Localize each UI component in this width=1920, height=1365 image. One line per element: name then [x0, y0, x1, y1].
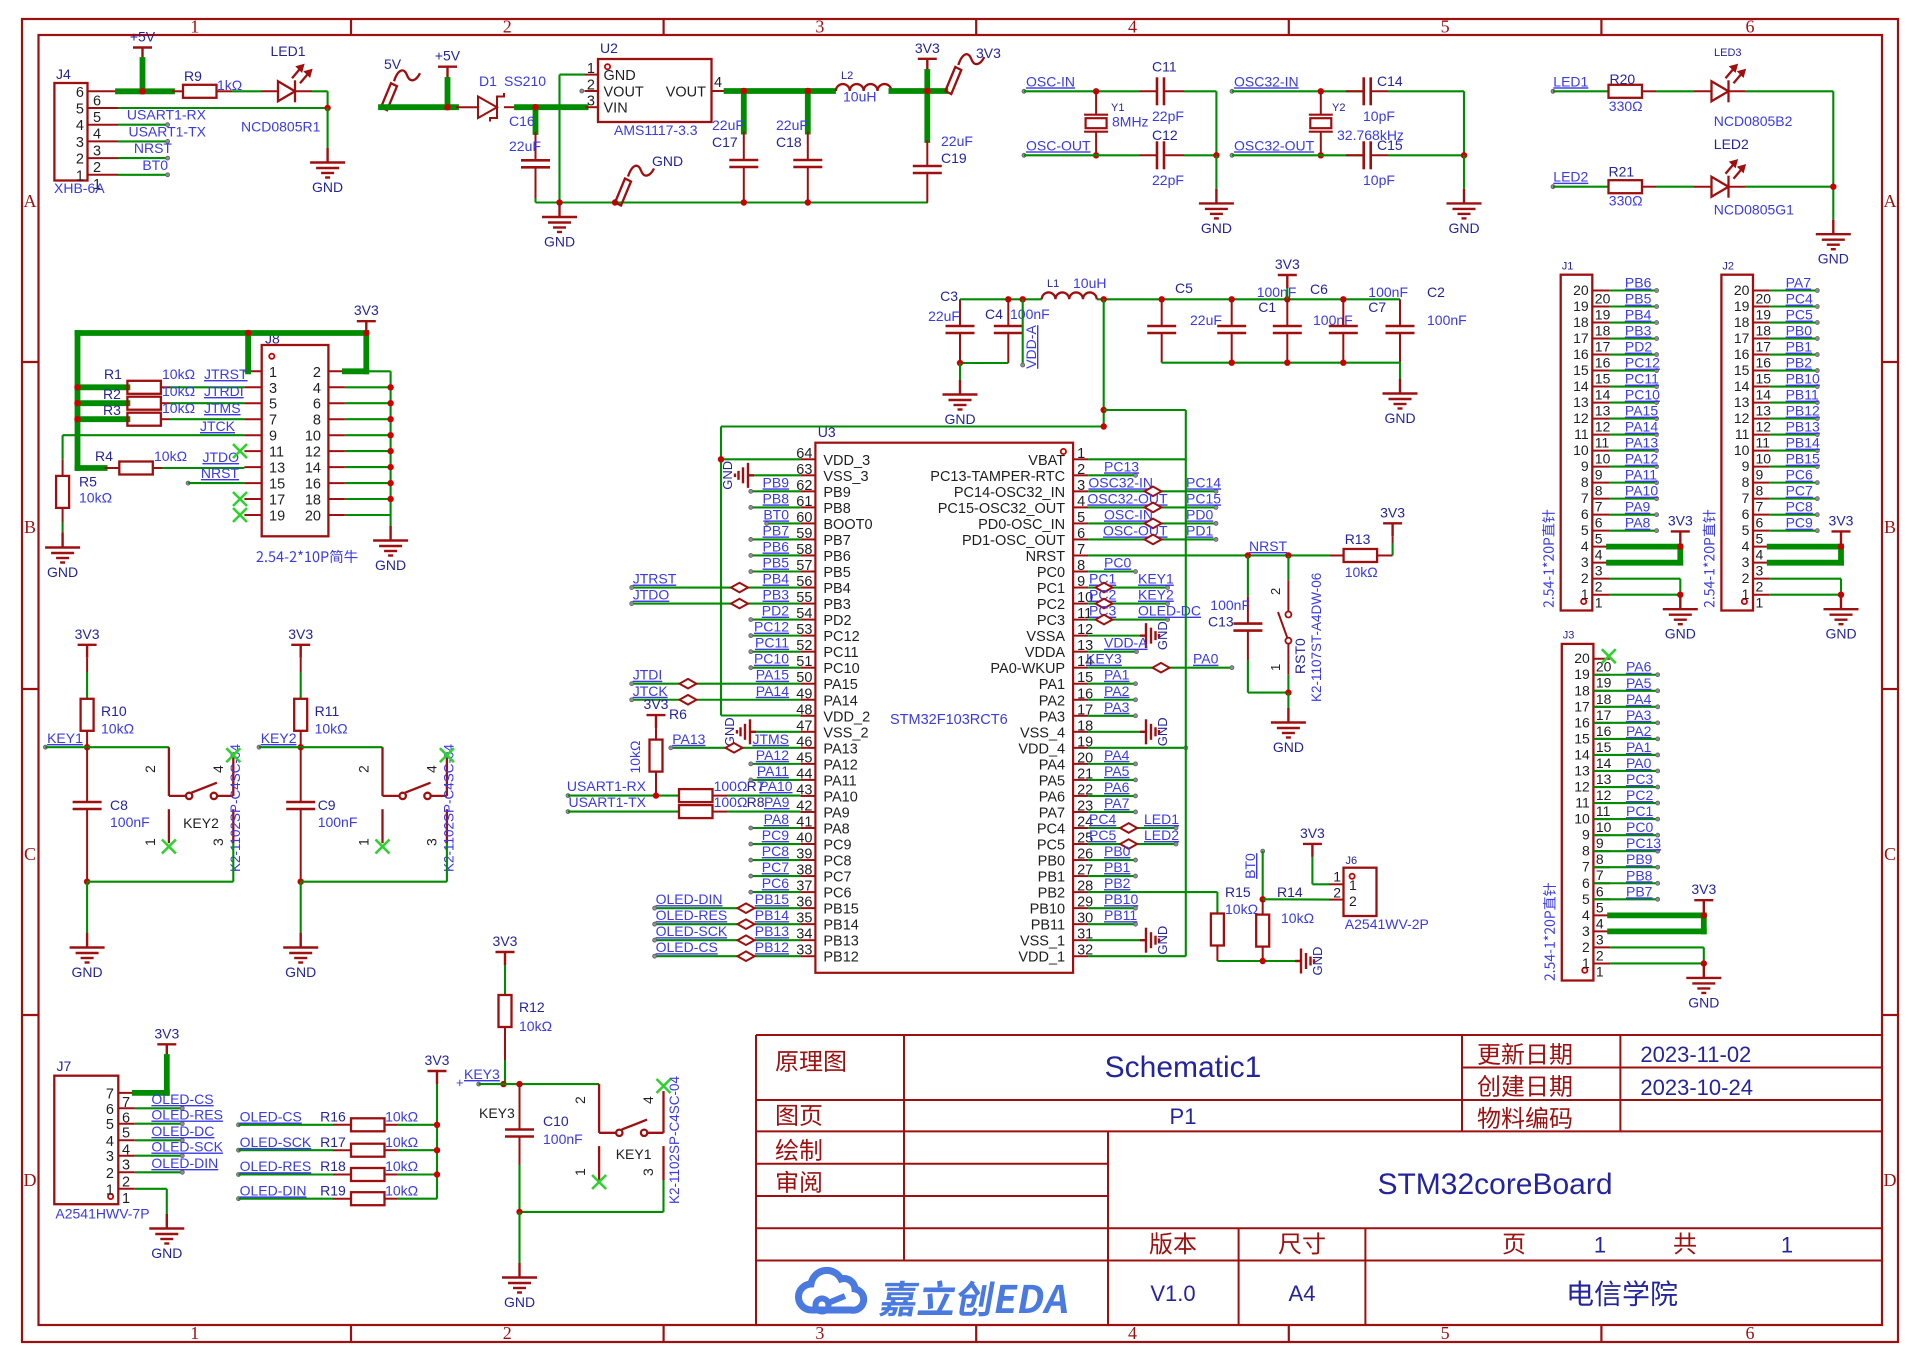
- svg-text:PC0: PC0: [1626, 819, 1653, 835]
- svg-text:L1: L1: [1047, 278, 1059, 290]
- net OLED-RES (pullup): [237, 1158, 334, 1176]
- svg-text:2: 2: [1596, 947, 1604, 963]
- wire VDD rail above U3: [721, 299, 1104, 715]
- svg-text:22uF: 22uF: [1190, 312, 1222, 328]
- junction R3: [74, 416, 80, 422]
- wire to R9: [172, 90, 183, 92]
- wire D1 to VIN: [504, 106, 517, 108]
- svg-text:KEY2: KEY2: [1138, 587, 1174, 603]
- svg-text:GND: GND: [652, 153, 683, 169]
- svg-text:PB10: PB10: [1030, 902, 1065, 918]
- power flag 3V3 (J1): [1668, 512, 1693, 544]
- svg-text:3V3: 3V3: [425, 1052, 450, 1068]
- net OSC-IN: [1022, 73, 1139, 93]
- ground GND (J3): [1686, 963, 1721, 1010]
- svg-text:PC0: PC0: [1104, 555, 1131, 571]
- net PC6 (U3 left): [749, 875, 801, 894]
- net PC1 (J3): [1593, 803, 1659, 821]
- net PA2 (U3 right): [1088, 683, 1137, 702]
- junction osc32 gnd: [1461, 152, 1467, 158]
- svg-text:JTRST: JTRST: [633, 571, 677, 587]
- svg-text:VSSA: VSSA: [1026, 629, 1065, 645]
- svg-text:+5V: +5V: [435, 48, 461, 64]
- svg-text:4: 4: [210, 765, 226, 773]
- svg-text:1: 1: [1594, 1233, 1606, 1258]
- svg-text:PB11: PB11: [1031, 918, 1065, 934]
- svg-text:VDD_4: VDD_4: [1018, 741, 1065, 757]
- net alias diamond (JTDI): [680, 679, 697, 689]
- no-connect pin1 (): [376, 840, 390, 854]
- svg-text:K2-1102SP-C4SC-04: K2-1102SP-C4SC-04: [667, 1075, 682, 1204]
- net BT0 (U3): [763, 506, 800, 525]
- no-connect KEY1 pin4: [657, 1079, 671, 1093]
- net OLED-SCK/PB13 (U3 left): [653, 923, 801, 942]
- svg-text:7: 7: [1742, 490, 1750, 506]
- svg-text:PA3: PA3: [1104, 699, 1130, 715]
- resistor R8 100: [679, 794, 800, 818]
- svg-text:PA13: PA13: [1625, 435, 1658, 451]
- wire JTCK to R5: [63, 435, 245, 476]
- svg-text:17: 17: [1596, 707, 1612, 723]
- net PA5 (J3): [1593, 675, 1659, 693]
- net KEY3 label: [456, 1066, 504, 1090]
- svg-text:PB3: PB3: [823, 597, 850, 613]
- svg-text:9: 9: [1596, 835, 1604, 851]
- junction bus/pin1: [245, 330, 251, 336]
- net PC4 (J2): [1770, 291, 1820, 309]
- net PC0 (U3 right): [1088, 555, 1137, 574]
- net OLED-SCK (J7): [135, 1139, 224, 1158]
- svg-text:12: 12: [305, 445, 321, 461]
- no-connect pin4 (): [440, 748, 454, 762]
- net PC3/OLED-DC (U3 right): [1088, 603, 1201, 622]
- svg-text:2: 2: [1349, 893, 1357, 909]
- svg-text:6: 6: [93, 93, 101, 109]
- svg-text:9: 9: [1077, 574, 1085, 590]
- svg-text:Y1: Y1: [1111, 102, 1124, 114]
- svg-text:C6: C6: [1310, 281, 1328, 297]
- wire pin48 VDD_2: [721, 714, 800, 716]
- svg-text:GND: GND: [944, 411, 975, 427]
- net alias diamond (OSC-OUT): [1145, 535, 1162, 545]
- svg-text:15: 15: [269, 477, 285, 493]
- net PB9 (J3): [1593, 851, 1659, 869]
- net alias diamond (OLED-DC): [1096, 615, 1113, 625]
- svg-text:PB0: PB0: [1104, 843, 1131, 859]
- net alias diamond (LED2): [1120, 839, 1137, 849]
- svg-text:2: 2: [503, 17, 512, 37]
- junctions J8 right rail: [387, 384, 393, 502]
- svg-text:OLED-DIN: OLED-DIN: [656, 891, 723, 907]
- svg-text:11: 11: [1756, 435, 1771, 451]
- svg-text:20: 20: [1573, 282, 1589, 298]
- net PA1 (U3 right): [1088, 667, 1137, 686]
- svg-text:3V3: 3V3: [1380, 504, 1405, 520]
- svg-text:10: 10: [305, 429, 321, 445]
- svg-text:GND: GND: [1448, 220, 1479, 236]
- svg-text:5: 5: [1742, 522, 1750, 538]
- svg-text:5: 5: [1441, 1323, 1450, 1343]
- svg-text:7: 7: [1595, 499, 1603, 515]
- junction C bottom (KEY2): [298, 879, 304, 885]
- connector J3 2.54-1*20P: [1543, 630, 1612, 981]
- wire to GND (RST0): [1287, 693, 1289, 708]
- wire to GND: [327, 108, 329, 148]
- net PA4 (J3): [1593, 691, 1659, 709]
- net PB1 (U3 right): [1088, 859, 1137, 878]
- resistor R16 10k: [320, 1109, 437, 1132]
- svg-text:R16: R16: [320, 1109, 346, 1125]
- svg-text:USART1-RX: USART1-RX: [567, 778, 647, 794]
- svg-text:USART1-TX: USART1-TX: [568, 794, 646, 810]
- LED LED3 NCD0805B2: [1694, 47, 1833, 129]
- net PB10 (U3 right): [1088, 891, 1138, 910]
- svg-text:15: 15: [1756, 371, 1772, 387]
- net PB6 (U3 left): [749, 538, 801, 557]
- resistor R17 10k: [320, 1134, 437, 1157]
- junction C6 bottom: [1284, 360, 1290, 366]
- net PB1 (J2): [1770, 339, 1820, 357]
- resistor R14 10k: [1256, 884, 1314, 961]
- svg-text:VSS_3: VSS_3: [823, 469, 868, 485]
- svg-text:PC8: PC8: [1786, 499, 1813, 515]
- svg-text:6: 6: [1746, 17, 1755, 37]
- svg-text:PA9: PA9: [764, 794, 790, 810]
- svg-text:22uF: 22uF: [712, 117, 744, 133]
- no-connect J8 pin17: [233, 492, 247, 506]
- junction BT0/R14: [1260, 896, 1266, 902]
- switch KEY1 K2-1102SP: [572, 1075, 682, 1204]
- svg-text:PA13: PA13: [823, 741, 857, 757]
- ground GND (J8): [373, 526, 408, 573]
- svg-text:10kΩ: 10kΩ: [519, 1018, 552, 1034]
- svg-text:PB12: PB12: [1786, 403, 1820, 419]
- resistor R18 10k: [320, 1158, 437, 1181]
- net PB7 (J3): [1593, 883, 1659, 901]
- svg-text:PD1: PD1: [1186, 522, 1213, 538]
- svg-text:10uH: 10uH: [1073, 275, 1106, 291]
- net PC12 (J1): [1609, 355, 1660, 373]
- svg-text:J2: J2: [1722, 261, 1734, 273]
- net PC12 (U3 left): [749, 619, 801, 638]
- svg-text:GND: GND: [47, 564, 78, 580]
- crystal Y2 32.768kHz: [1309, 91, 1404, 155]
- svg-text:PB12: PB12: [823, 950, 858, 966]
- svg-text:R11: R11: [315, 703, 340, 719]
- svg-text:330Ω: 330Ω: [1609, 193, 1643, 209]
- svg-text:J1: J1: [1562, 261, 1574, 273]
- svg-text:15: 15: [1596, 739, 1612, 755]
- ground GND (osc2): [1447, 189, 1482, 236]
- svg-text:10uH: 10uH: [843, 89, 876, 105]
- svg-text:6: 6: [106, 1102, 114, 1118]
- svg-text:14: 14: [1573, 378, 1589, 394]
- svg-text:7: 7: [1581, 490, 1589, 506]
- svg-text:10kΩ: 10kΩ: [385, 1158, 418, 1174]
- net alias diamond (KEY1): [1096, 583, 1113, 593]
- net KEY1 label: [43, 730, 87, 749]
- svg-text:C5: C5: [1175, 280, 1193, 296]
- junction 3V3/C19: [924, 88, 930, 94]
- svg-text:A: A: [1884, 191, 1897, 211]
- svg-text:2: 2: [313, 365, 321, 381]
- svg-text:3V3: 3V3: [644, 696, 669, 712]
- svg-text:C18: C18: [776, 134, 802, 150]
- svg-text:8MHz: 8MHz: [1112, 114, 1149, 130]
- wire C14/C15 join: [1463, 91, 1465, 155]
- svg-text:10kΩ: 10kΩ: [385, 1134, 418, 1150]
- net VDD-A (U3): [1088, 635, 1148, 654]
- wire VDD_1 to vertical: [1088, 410, 1186, 956]
- netflag GND squiggle: [612, 153, 683, 206]
- net PA15 (J1): [1609, 403, 1659, 421]
- resistor R19 10k: [320, 1182, 437, 1205]
- pin U2.2 stub: [580, 89, 598, 93]
- wire GND (J3): [1610, 947, 1704, 963]
- svg-text:PB7: PB7: [763, 522, 790, 538]
- resistor R9 1k: [183, 68, 261, 98]
- svg-text:PC12: PC12: [754, 619, 789, 635]
- svg-text:PC5: PC5: [1786, 307, 1813, 323]
- svg-text:1: 1: [190, 1323, 199, 1343]
- ground GND (LEDs): [1816, 220, 1851, 267]
- wire cap bank bottom rail: [1162, 362, 1400, 364]
- svg-text:10kΩ: 10kΩ: [1225, 901, 1258, 917]
- svg-text:+: +: [456, 1075, 464, 1090]
- net PC10 (U3 left): [749, 651, 801, 670]
- svg-text:C19: C19: [941, 150, 967, 166]
- svg-text:14: 14: [1574, 746, 1590, 762]
- svg-text:100nF: 100nF: [1210, 597, 1250, 613]
- svg-text:PA2: PA2: [1626, 723, 1652, 739]
- net LED2 (right): [1551, 169, 1609, 189]
- net USART1-RX wire: [566, 778, 679, 798]
- svg-text:LED1: LED1: [1144, 811, 1179, 827]
- svg-text:PB5: PB5: [823, 565, 850, 581]
- net PA5 (U3 right): [1088, 763, 1137, 782]
- junction pin64: [718, 456, 724, 462]
- svg-text:C11: C11: [1152, 59, 1177, 75]
- svg-text:20: 20: [305, 509, 321, 525]
- svg-text:10pF: 10pF: [1363, 172, 1395, 188]
- svg-text:LED2: LED2: [1553, 169, 1588, 185]
- wire top rail: [960, 298, 1400, 300]
- svg-text:D: D: [1884, 1170, 1897, 1190]
- net PB9 (U3 left): [749, 474, 801, 493]
- junction C5 top: [1159, 296, 1165, 302]
- svg-text:PA9: PA9: [1625, 499, 1651, 515]
- net PA6 (U3 right): [1088, 779, 1137, 798]
- resistor R6 10k: [627, 706, 687, 796]
- svg-text:PC3: PC3: [1626, 771, 1653, 787]
- svg-text:PB14: PB14: [1786, 435, 1820, 451]
- svg-text:JTRST: JTRST: [204, 366, 248, 382]
- svg-text:C: C: [24, 844, 36, 864]
- wire osc gnd: [1215, 155, 1217, 189]
- power flag 3V3 (OLED pullups): [425, 1052, 450, 1199]
- svg-text:4: 4: [313, 381, 321, 397]
- svg-text:OLED-DC: OLED-DC: [1138, 603, 1201, 619]
- svg-text:JTDO: JTDO: [633, 587, 670, 603]
- wire VDD_4 to vertical: [1088, 746, 1188, 750]
- svg-text:11: 11: [1596, 803, 1611, 819]
- capacitor C16 22uF: [509, 113, 550, 167]
- svg-text:PC10: PC10: [823, 661, 859, 677]
- svg-text:GND: GND: [504, 1294, 535, 1310]
- wire KEY1 to switch: [87, 746, 169, 748]
- svg-text:K2-1102SP-C4SC-04: K2-1102SP-C4SC-04: [442, 743, 457, 872]
- svg-text:PA12: PA12: [756, 747, 789, 763]
- title block labels: [776, 1043, 1696, 1255]
- svg-text:1: 1: [1333, 869, 1341, 885]
- wire 3V3 (J2): [1770, 547, 1841, 563]
- svg-text:USART1-TX: USART1-TX: [128, 123, 206, 139]
- net alias diamond (OLED-SCK): [738, 935, 755, 945]
- svg-text:4: 4: [1756, 547, 1764, 563]
- svg-text:R6: R6: [669, 706, 687, 722]
- junction VBAT branch: [1101, 407, 1107, 413]
- junction C17: [741, 88, 747, 94]
- wire VBAT: [1088, 410, 1186, 459]
- svg-text:14: 14: [1595, 387, 1611, 403]
- svg-text:GND: GND: [151, 1245, 182, 1261]
- svg-text:1: 1: [122, 1191, 130, 1207]
- svg-text:1: 1: [1268, 664, 1283, 671]
- ground GND (R5): [45, 533, 80, 580]
- svg-text:19: 19: [1595, 307, 1611, 323]
- svg-text:13: 13: [1734, 394, 1750, 410]
- svg-text:PA3: PA3: [1626, 707, 1652, 723]
- svg-text:PA7: PA7: [1104, 795, 1130, 811]
- svg-text:2023-11-02: 2023-11-02: [1640, 1042, 1751, 1067]
- svg-text:7: 7: [1582, 859, 1590, 875]
- svg-text:12: 12: [1734, 410, 1750, 426]
- svg-text:3V3: 3V3: [493, 933, 518, 949]
- svg-text:PC13: PC13: [1104, 458, 1139, 474]
- resistor R1 10k: [78, 366, 245, 394]
- svg-text:PC11: PC11: [823, 645, 858, 661]
- svg-text:PA12: PA12: [823, 757, 857, 773]
- net OSC32-OUT/PC15 (U3 right): [1087, 490, 1221, 509]
- svg-text:3: 3: [815, 1323, 824, 1343]
- title block grid: [756, 1035, 1882, 1325]
- svg-text:PA14: PA14: [823, 693, 857, 709]
- junction R16/3V3: [434, 1122, 440, 1128]
- svg-text:12: 12: [1595, 419, 1611, 435]
- svg-text:4: 4: [1581, 538, 1589, 554]
- svg-text:19: 19: [269, 509, 285, 525]
- svg-text:1: 1: [269, 365, 277, 381]
- net alias diamond (KEY2): [1096, 599, 1113, 609]
- wire to GND (C2): [1399, 363, 1401, 379]
- junction C6 top / 3V3: [1284, 296, 1290, 302]
- svg-text:NCD0805R1: NCD0805R1: [241, 119, 321, 135]
- svg-text:C17: C17: [712, 134, 738, 150]
- svg-text:100nF: 100nF: [1368, 284, 1408, 300]
- svg-text:6: 6: [1581, 506, 1589, 522]
- wire C11 to C12 join: [1184, 91, 1216, 155]
- svg-text:10kΩ: 10kΩ: [154, 448, 187, 464]
- svg-text:NRST: NRST: [201, 465, 240, 481]
- svg-text:PB14: PB14: [755, 907, 789, 923]
- net PB14 (J2): [1770, 435, 1820, 453]
- svg-text:LED3: LED3: [1714, 47, 1742, 59]
- svg-text:18: 18: [1574, 682, 1590, 698]
- svg-text:3V3: 3V3: [75, 626, 100, 642]
- svg-text:19: 19: [1596, 675, 1612, 691]
- svg-text:GND: GND: [1688, 994, 1719, 1010]
- svg-text:2: 2: [1582, 939, 1590, 955]
- svg-text:3V3: 3V3: [354, 302, 379, 318]
- power flag 3V3 (KEY1): [75, 626, 100, 699]
- svg-text:2: 2: [1268, 588, 1283, 595]
- svg-text:8: 8: [1756, 483, 1764, 499]
- ground GND (J1): [1663, 595, 1698, 642]
- svg-text:3: 3: [1595, 563, 1603, 579]
- resistor R21 330: [1609, 164, 1695, 209]
- title block values: [1105, 1042, 1794, 1306]
- svg-text:13: 13: [1756, 403, 1772, 419]
- svg-text:10: 10: [1734, 442, 1750, 458]
- crystal Y1 8MHz: [1084, 91, 1148, 155]
- power flag 3V3 (J2): [1829, 512, 1854, 544]
- junction C1 bottom: [1229, 360, 1235, 366]
- net PB7 (U3 left): [749, 522, 801, 541]
- net PA7 (U3 right): [1088, 795, 1137, 814]
- svg-text:10: 10: [1595, 451, 1611, 467]
- junction R1: [74, 384, 80, 390]
- svg-text:C2: C2: [1427, 284, 1445, 300]
- svg-text:LED1: LED1: [270, 43, 305, 59]
- net USART1-RX (J4): [118, 107, 207, 127]
- junction C1 top: [1229, 296, 1235, 302]
- svg-text:Y2: Y2: [1332, 102, 1345, 114]
- net PC8 (J2): [1770, 499, 1820, 517]
- svg-text:VDD_3: VDD_3: [823, 453, 870, 469]
- svg-text:B: B: [1884, 517, 1896, 537]
- svg-text:20: 20: [1574, 650, 1590, 666]
- wire KEY2 to switch: [301, 746, 383, 748]
- power flag 3V3 (cap bank): [1275, 256, 1300, 299]
- junction GND (J2): [1838, 591, 1844, 597]
- svg-text:GND: GND: [1155, 717, 1170, 746]
- svg-text:4: 4: [106, 1134, 114, 1150]
- net PC13 (U3 right): [1088, 458, 1139, 477]
- svg-text:PC11: PC11: [755, 635, 789, 651]
- svg-text:PB6: PB6: [1625, 275, 1652, 291]
- svg-text:PB9: PB9: [763, 474, 790, 490]
- svg-text:4: 4: [1596, 915, 1604, 931]
- svg-text:PA1: PA1: [1626, 739, 1652, 755]
- svg-text:PB0: PB0: [1038, 854, 1065, 870]
- svg-text:PC12: PC12: [1625, 355, 1660, 371]
- no-connect J8 pin19: [233, 508, 247, 522]
- svg-text:3: 3: [640, 1168, 656, 1176]
- net PB4 (J1): [1609, 307, 1659, 325]
- svg-text:PA8: PA8: [823, 821, 849, 837]
- svg-text:8: 8: [1581, 474, 1589, 490]
- net PA0 (J3): [1593, 755, 1659, 773]
- svg-text:PB10: PB10: [1104, 891, 1138, 907]
- ground sideways (VSS_1): [1088, 926, 1170, 955]
- svg-text:C12: C12: [1152, 127, 1178, 143]
- svg-text:7: 7: [1077, 542, 1085, 558]
- junction 3V3 (J3): [1701, 912, 1707, 918]
- svg-text:10kΩ: 10kΩ: [385, 1182, 418, 1198]
- svg-text:15: 15: [1734, 362, 1750, 378]
- resistor R7 100: [679, 778, 800, 802]
- svg-text:KEY3: KEY3: [1086, 651, 1122, 667]
